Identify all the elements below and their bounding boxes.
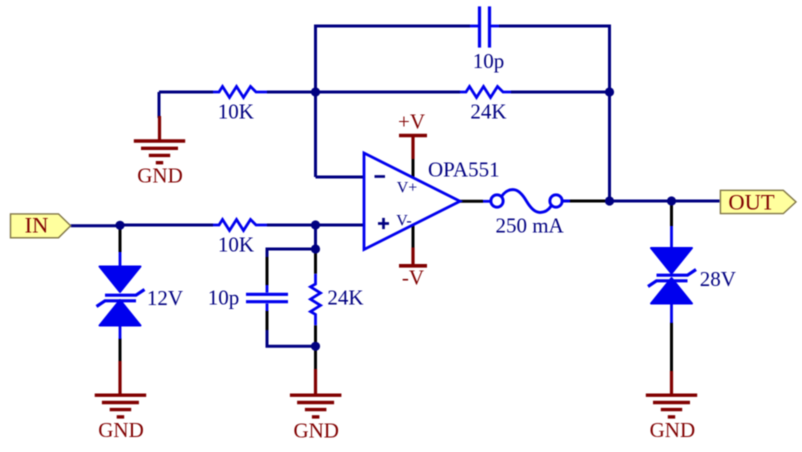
svg-text:10K: 10K bbox=[218, 99, 254, 123]
svg-text:250 mA: 250 mA bbox=[495, 214, 564, 238]
svg-text:GND: GND bbox=[650, 418, 696, 442]
svg-text:GND: GND bbox=[98, 418, 144, 442]
svg-text:12V: 12V bbox=[147, 286, 183, 310]
svg-text:28V: 28V bbox=[700, 267, 736, 291]
svg-text:24K: 24K bbox=[470, 99, 506, 123]
svg-text:24K: 24K bbox=[327, 286, 363, 310]
svg-text:10K: 10K bbox=[218, 232, 254, 256]
svg-text:GND: GND bbox=[293, 418, 339, 442]
svg-text:10p: 10p bbox=[208, 286, 240, 310]
svg-text:10p: 10p bbox=[473, 49, 505, 73]
svg-text:V+: V+ bbox=[397, 180, 418, 197]
svg-text:OUT: OUT bbox=[728, 190, 774, 215]
svg-text:-V: -V bbox=[402, 265, 424, 289]
svg-text:IN: IN bbox=[25, 212, 49, 237]
svg-text:OPA551: OPA551 bbox=[428, 157, 500, 181]
svg-text:V-: V- bbox=[396, 212, 411, 229]
svg-text:+V: +V bbox=[398, 110, 425, 134]
svg-text:GND: GND bbox=[137, 164, 183, 188]
